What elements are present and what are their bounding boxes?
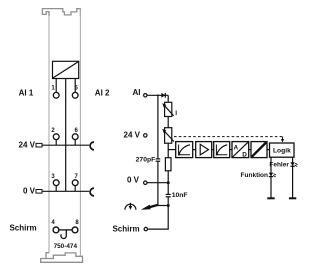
terminal 24V right	[144, 134, 147, 137]
terminal Schirm right	[144, 227, 147, 230]
wire R1 to R2	[167, 117, 169, 128]
carrier rail contact symbol	[125, 204, 136, 209]
pin 3 terminal	[53, 180, 59, 186]
wire stub pin 7	[74, 186, 76, 192]
pin 4 terminal	[53, 227, 59, 233]
capacitor C1 270pF plates	[156, 158, 161, 160]
terminal AI right	[144, 94, 147, 97]
svg-text:7: 7	[75, 174, 79, 180]
capacitor C2 10nF plates	[166, 193, 171, 195]
svg-text:AI 2: AI 2	[95, 88, 110, 97]
wire F1 to amp	[193, 149, 196, 151]
wire AI to diode	[147, 94, 168, 96]
pin 1 terminal	[53, 92, 59, 98]
svg-text:24 V: 24 V	[19, 141, 36, 150]
module outline bottom steps	[46, 253, 81, 259]
wire 0V to node	[147, 182, 168, 184]
filter box F2	[214, 142, 230, 158]
0V spring contact right	[90, 188, 94, 196]
dashed control line	[174, 136, 283, 138]
module outline bottom foot	[41, 253, 83, 263]
varistor R1	[165, 102, 172, 116]
junction 0V node	[167, 181, 170, 184]
junction chassis node	[167, 204, 170, 207]
module right edge	[79, 9, 81, 257]
24V plug contact left	[36, 143, 42, 147]
dashed control arrow into Logik	[282, 137, 284, 140]
svg-text:24 V: 24 V	[124, 131, 141, 140]
isolation box	[251, 142, 267, 158]
svg-text:270pF: 270pF	[136, 156, 156, 163]
svg-text:4: 4	[51, 220, 55, 226]
wire A/D to isolation	[249, 149, 251, 151]
varistor R1 arrow	[164, 106, 173, 116]
svg-text:Schirm: Schirm	[9, 224, 36, 233]
A/D converter box	[232, 142, 249, 158]
wire R3 to 0V node	[167, 171, 169, 194]
svg-text:3: 3	[51, 174, 55, 180]
svg-text:I: I	[175, 110, 177, 117]
svg-text:750-474: 750-474	[54, 243, 78, 250]
wire stub pin 3	[55, 186, 57, 192]
270pF rail upper segment	[157, 95, 159, 159]
junction AI / 270pF rail	[157, 94, 159, 96]
wire Schirm to chassis node	[148, 206, 169, 230]
shield bar wire between pin 4 and 8	[59, 229, 72, 231]
svg-text:AI: AI	[133, 88, 141, 97]
wire amp to F2	[212, 149, 214, 151]
svg-text:AI 1: AI 1	[19, 88, 34, 97]
node to filter chain	[168, 149, 176, 151]
filter box F1	[176, 142, 193, 158]
diode D1	[161, 93, 165, 98]
Funktion ground bar	[267, 197, 274, 199]
Logik box	[270, 143, 295, 157]
svg-text:0 V: 0 V	[127, 175, 140, 184]
svg-text:Fehler: Fehler	[269, 162, 289, 169]
wire from LED box to 0V rail	[65, 79, 67, 192]
varistor R2	[165, 128, 172, 144]
wire diode to varistor chain	[167, 95, 169, 102]
0V rail wire	[42, 190, 89, 192]
svg-text:Funktion: Funktion	[241, 172, 268, 179]
pin 7 terminal	[72, 180, 78, 186]
wire stub pin 5	[74, 79, 76, 93]
wire stub pin 6	[74, 140, 76, 146]
Fehler LED wire	[292, 157, 294, 197]
pin 5 terminal	[72, 92, 78, 98]
24V rail wire	[42, 144, 89, 146]
svg-text:6: 6	[75, 128, 79, 134]
svg-text:8: 8	[75, 220, 79, 226]
svg-text:Logik: Logik	[273, 147, 291, 154]
wire isolation to Logik	[267, 149, 270, 151]
svg-text:D: D	[242, 152, 247, 159]
svg-text:5: 5	[75, 85, 79, 91]
270pF rail lower segment	[157, 161, 159, 205]
svg-text:2: 2	[51, 128, 55, 134]
arrow to carrier rail	[149, 205, 158, 208]
wire F2 to A/D	[230, 149, 232, 151]
Funktion LED wire	[270, 157, 272, 197]
svg-text:10nF: 10nF	[172, 192, 188, 199]
module left edge	[48, 16, 50, 253]
0V plug contact left	[36, 190, 42, 194]
wire R2 to node	[167, 143, 169, 158]
Funktion LED	[269, 173, 273, 177]
wire stub pin 2	[55, 140, 57, 146]
varistor R2 arrow	[164, 131, 174, 141]
Fehler ground bar	[289, 197, 296, 199]
wire 10nF to chassis node	[167, 197, 169, 206]
pin 8 terminal	[72, 227, 78, 233]
svg-text:Schirm: Schirm	[112, 224, 139, 233]
resistor R3	[165, 158, 171, 171]
chassis node horizontal wire	[157, 205, 168, 207]
shield clamp hook	[61, 230, 66, 239]
pin 2 terminal	[53, 134, 59, 140]
terminal 0V right	[144, 181, 147, 184]
pin 6 terminal	[72, 134, 78, 140]
svg-text:0 V: 0 V	[23, 187, 36, 196]
24V spring contact right	[90, 142, 94, 150]
wire stub pin 1	[55, 79, 57, 93]
svg-text:1: 1	[51, 85, 55, 91]
status LED box diagonal	[53, 62, 78, 78]
Fehler LED	[290, 162, 294, 166]
amplifier box A1	[196, 142, 212, 158]
status LED box U1	[53, 61, 79, 78]
svg-text:A: A	[233, 144, 238, 151]
module outline top profile	[42, 9, 80, 16]
